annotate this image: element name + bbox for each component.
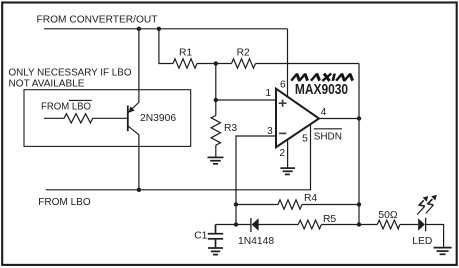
junction pin1 input node: [214, 98, 218, 102]
resistor R5: [298, 220, 321, 229]
svg-text:R3: R3: [224, 123, 237, 134]
svg-text:R5: R5: [323, 214, 336, 225]
svg-text:LED: LED: [412, 236, 432, 247]
wire 50ohm to LED: [400, 224, 418, 226]
svg-text:FROM LBO: FROM LBO: [38, 197, 90, 208]
svg-text:MAX9030: MAX9030: [295, 82, 348, 98]
wire pin6 supply drop: [287, 29, 289, 98]
wire emitter branch: [128, 29, 139, 113]
overline LBO (inside box): [69, 99, 92, 101]
svg-text:1: 1: [265, 88, 271, 99]
svg-text:5: 5: [302, 133, 308, 144]
wire R1 branch: [159, 29, 173, 64]
junction rail / emitter: [137, 27, 141, 31]
resistor R4: [278, 200, 302, 209]
LED arrow 1: [417, 196, 428, 215]
resistor 50ohm: [377, 220, 400, 229]
svg-text:R2: R2: [237, 48, 250, 59]
wire R2 to feedback corner: [256, 63, 360, 65]
svg-text:FROM LBO: FROM LBO: [41, 102, 91, 113]
resistor inside box: [44, 114, 128, 123]
MAXIM logo: [291, 74, 354, 81]
wire C1 to diode: [216, 224, 251, 226]
wire collector branch: [128, 126, 139, 190]
ground (R3): [208, 157, 224, 163]
svg-text:NOT AVAILABLE: NOT AVAILABLE: [9, 78, 85, 89]
svg-text:6: 6: [280, 80, 286, 91]
wire feedback vertical: [358, 64, 360, 225]
svg-text:50Ω: 50Ω: [378, 210, 397, 221]
op-amp U1 triangle: [276, 89, 319, 148]
wire pin1 input: [216, 99, 276, 101]
wire pin3 input: [236, 136, 276, 225]
svg-text:2N3906: 2N3906: [140, 113, 176, 124]
wire diode to R5: [259, 224, 299, 226]
overline SHDN: [314, 128, 342, 130]
wire R3 to ground: [215, 145, 217, 157]
svg-text:2: 2: [279, 148, 285, 159]
transistor Q1 emitter arrowhead: [128, 106, 134, 112]
svg-text:4: 4: [321, 107, 327, 118]
wire R5 to node: [321, 224, 377, 226]
junction diode line left: [234, 222, 238, 226]
junction R1-R2-R3 node: [214, 61, 218, 65]
svg-text:FROM CONVERTER/OUT: FROM CONVERTER/OUT: [37, 15, 159, 26]
LED diode: [418, 218, 425, 231]
diode D1 1N4148: [250, 218, 252, 232]
ground (LED): [434, 248, 452, 255]
wire R1 to node: [197, 63, 232, 65]
svg-text:R1: R1: [179, 48, 192, 59]
wire pin2 to ground: [287, 140, 289, 168]
wire R4 right: [302, 204, 359, 206]
wire R3 column: [215, 64, 217, 116]
junction R4 right: [357, 202, 361, 206]
svg-text:C1: C1: [194, 231, 207, 242]
junction R4 left: [234, 202, 238, 206]
LED arrow 2: [426, 195, 437, 214]
junction rail / R1 branch: [157, 27, 161, 31]
svg-text:R4: R4: [304, 193, 317, 204]
resistor R3: [211, 116, 220, 146]
box ONLY NECESSARY IF LBO: [24, 90, 191, 147]
svg-text:SHDN: SHDN: [314, 131, 342, 142]
wire top rail: [44, 28, 288, 30]
junction output node: [357, 116, 361, 120]
op-amp plus symbol: [279, 100, 287, 107]
wire opamp output: [319, 118, 359, 120]
svg-text:ONLY NECESSARY IF LBO: ONLY NECESSARY IF LBO: [9, 67, 132, 78]
ground (op-amp pin2): [280, 168, 295, 174]
svg-text:1N4148: 1N4148: [238, 236, 274, 247]
resistor R2: [232, 59, 256, 68]
op-amp minus symbol: [279, 132, 286, 134]
resistor R1: [173, 59, 197, 68]
ground (C1): [208, 248, 223, 255]
wire LED to ground corner: [426, 225, 444, 247]
wire FROM LBO / SHDN: [46, 124, 311, 190]
svg-text:3: 3: [267, 126, 273, 137]
junction LBO / collector: [137, 188, 141, 192]
wire R4 left: [236, 204, 278, 206]
capacitor C1: [208, 225, 223, 248]
transistor Q1 base bar: [127, 106, 129, 132]
junction R5 right: [357, 222, 361, 226]
